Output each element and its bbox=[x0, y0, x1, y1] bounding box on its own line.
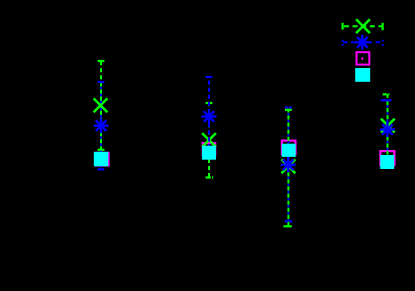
legend magenta dotted line remnant bbox=[361, 57, 363, 60]
blue top cap G1 bbox=[98, 81, 105, 83]
green top cap G3 bbox=[285, 109, 292, 111]
blue asterisk marker G3 bbox=[281, 157, 296, 172]
legend green X marker bbox=[356, 19, 370, 33]
magenta open square G3 bbox=[282, 141, 296, 155]
green bottom cap G2 (dashed look) bbox=[206, 176, 211, 178]
green X marker G4 bbox=[381, 119, 395, 133]
green errorbar line G4 bbox=[387, 94, 389, 157]
blue errorbar line G4 bbox=[387, 100, 389, 158]
magenta open square G2 bbox=[203, 143, 215, 155]
green errorbar line G1 bbox=[100, 61, 102, 150]
legend blue asterisk marker bbox=[355, 35, 370, 50]
green top cap G2 bbox=[206, 102, 213, 104]
cyan filled square G2 bbox=[202, 146, 216, 160]
green bottom cap G1 bbox=[98, 149, 105, 151]
green X marker G3 bbox=[282, 159, 296, 173]
blue bottom cap G1 bbox=[98, 168, 105, 170]
blue errorbar line G2 bbox=[208, 77, 210, 156]
legend green dashed line sample bbox=[342, 25, 384, 27]
cyan filled square G4 bbox=[380, 155, 394, 169]
green errorbar line G3 bbox=[287, 110, 289, 227]
blue errorbar line G3 bbox=[287, 108, 289, 222]
green X marker G1 bbox=[94, 98, 108, 112]
blue bottom cap G3 (dashed look) bbox=[285, 220, 288, 222]
legend green left cap bbox=[342, 23, 344, 30]
blue asterisk marker G2 bbox=[202, 109, 217, 124]
green top cap G4 (dashed look) bbox=[383, 93, 387, 95]
legend green right cap bbox=[382, 23, 384, 30]
green X marker G2 bbox=[202, 133, 216, 147]
blue errorbar line G1 bbox=[100, 82, 102, 169]
legend blue left cap (dashed) bbox=[342, 40, 344, 42]
blue top cap G2 bbox=[206, 76, 213, 78]
green top cap G1 bbox=[98, 60, 105, 62]
cyan filled square G3 bbox=[282, 144, 296, 157]
legend blue right cap (dashed) bbox=[382, 40, 384, 42]
legend blue dashed line sample bbox=[342, 41, 384, 43]
blue top cap G3 (dashed look) bbox=[285, 106, 288, 108]
legend cyan filled square bbox=[355, 68, 370, 82]
magenta open square G1 bbox=[96, 153, 109, 166]
green errorbar line G2 bbox=[208, 103, 210, 178]
cyan filled square G1 bbox=[94, 152, 108, 167]
blue asterisk marker G4 bbox=[380, 122, 395, 137]
blue top cap G4 bbox=[381, 99, 392, 101]
legend magenta open square bbox=[357, 52, 370, 64]
magenta open square G4 bbox=[380, 151, 394, 165]
green bottom cap G3 bbox=[283, 225, 291, 227]
blue asterisk marker G1 bbox=[94, 118, 109, 133]
